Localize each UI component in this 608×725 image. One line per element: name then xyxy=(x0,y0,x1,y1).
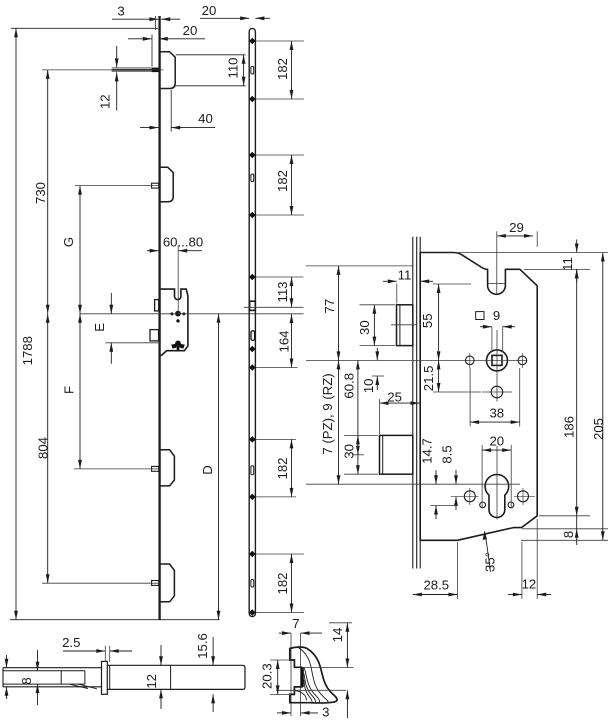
ext lines 9 xyxy=(491,327,493,352)
cylinder centerline horizontal xyxy=(306,483,520,485)
svg-text:20.3: 20.3 xyxy=(260,663,275,689)
svg-text:38: 38 xyxy=(489,406,504,421)
profile crossing line lower xyxy=(276,689,346,691)
svg-text:7 (PZ), 9 (RZ): 7 (PZ), 9 (RZ) xyxy=(320,373,335,454)
profile crossing line upper xyxy=(302,667,354,669)
dim 205 xyxy=(602,253,604,541)
dim 7 (PZ), 9 (RZ) xyxy=(338,360,340,484)
ext line notch center left xyxy=(433,283,471,285)
svg-text:7: 7 xyxy=(292,616,299,631)
cylinder side hole right (big) xyxy=(518,491,529,502)
dim 110 (housing face) xyxy=(176,54,246,56)
dim 25 (deadbolt) xyxy=(380,402,420,404)
svg-text:11: 11 xyxy=(398,268,412,283)
bottom ext line right xyxy=(521,539,608,541)
faceplate flange (section) xyxy=(102,661,108,694)
pin 1 centerline xyxy=(42,69,164,71)
mushroom pin 1 head (extended, filled) xyxy=(152,68,159,73)
latch centerline xyxy=(391,324,417,326)
svg-text:1788: 1788 xyxy=(20,336,35,365)
ext line 40 xyxy=(170,90,172,132)
ext line deadbolt face xyxy=(379,399,381,434)
dim E xyxy=(110,293,112,314)
svg-text:182: 182 xyxy=(275,572,290,594)
ext line pin head xyxy=(151,35,153,67)
dim 14 xyxy=(329,622,352,624)
deadbolt (case) xyxy=(380,435,413,474)
face strip front view xyxy=(249,28,255,616)
pin 3 (retracted) xyxy=(152,466,159,471)
tick 14.7 xyxy=(430,505,457,507)
dim 38 xyxy=(469,368,471,427)
svg-text:F: F xyxy=(61,386,76,394)
cylinder side hole left (small) xyxy=(480,502,486,508)
gearbox follower hub (filled) xyxy=(175,311,181,317)
svg-text:11: 11 xyxy=(560,257,575,271)
gearbox rear box upper (left of faceplate) xyxy=(155,300,159,311)
dim 182 no.2 xyxy=(291,155,293,215)
dim 730 xyxy=(47,70,49,314)
svg-text:20: 20 xyxy=(202,3,217,18)
hub side dot right xyxy=(182,312,185,315)
dim 186 xyxy=(576,269,578,515)
svg-text:21.5: 21.5 xyxy=(421,366,436,392)
dim 10 xyxy=(376,348,378,360)
strip cross-section (filled) xyxy=(301,667,304,687)
svg-text:205: 205 xyxy=(591,418,606,440)
svg-text:3: 3 xyxy=(322,705,329,720)
pin 4 centerline xyxy=(42,582,160,584)
lock body box xyxy=(107,664,242,666)
follower horizontal centerline xyxy=(80,313,304,315)
svg-text:12: 12 xyxy=(144,674,159,689)
dim 12 (pin 1) xyxy=(116,46,118,67)
cylinder side hole left (big) xyxy=(464,491,475,502)
bolt tail block xyxy=(60,671,62,684)
strip oblong hole 3 xyxy=(251,466,254,475)
svg-text:29: 29 xyxy=(509,220,524,235)
dim 7 (profile) xyxy=(279,632,291,634)
svg-text:9: 9 xyxy=(493,308,500,323)
cylinder centerline vertical xyxy=(496,446,498,520)
bolt shaft lines xyxy=(3,670,85,672)
svg-text:182: 182 xyxy=(275,457,290,479)
svg-text:110: 110 xyxy=(225,57,240,78)
bolt outer body lines xyxy=(3,667,102,669)
svg-text:15.6: 15.6 xyxy=(195,633,210,659)
dim 182 no.4 xyxy=(291,554,293,613)
strip cylinder oblong cutout xyxy=(251,331,255,341)
lock case faceplate lines xyxy=(412,237,414,569)
hub lower dot xyxy=(176,319,179,322)
dim 11 (latch protrusion) xyxy=(383,280,397,282)
dim 113 xyxy=(291,277,293,307)
side hole left (follower level) xyxy=(466,356,475,365)
dim 9 (follower square) xyxy=(480,326,492,328)
dim 55 xyxy=(438,284,440,360)
svg-text:20: 20 xyxy=(489,434,504,449)
strip follower cutout xyxy=(250,301,256,310)
dim 40 xyxy=(140,127,159,129)
mushroom pin 1 shaft (hatched) xyxy=(112,67,152,69)
dim 20 (pin head) xyxy=(128,38,152,40)
svg-text:20: 20 xyxy=(183,23,198,38)
svg-text:186: 186 xyxy=(561,416,576,438)
latch housing 3 xyxy=(161,450,175,486)
svg-text:E: E xyxy=(92,323,107,332)
svg-text:55: 55 xyxy=(420,313,435,328)
gearbox rear box lower (left of faceplate) xyxy=(150,330,159,341)
lower arrow segment (off-view dim) xyxy=(346,690,348,718)
dim 804 xyxy=(47,314,49,583)
dim 8 (bolt shaft) xyxy=(37,650,39,671)
svg-text:G: G xyxy=(61,237,76,247)
svg-text:12: 12 xyxy=(97,94,112,109)
svg-text:113: 113 xyxy=(275,281,290,302)
faceplate top ext line left xyxy=(306,265,413,267)
dim 60...80 (backset) xyxy=(147,250,159,252)
tick 10 xyxy=(372,375,384,377)
dim 14.7 xyxy=(435,470,437,484)
dim 8.5 xyxy=(455,470,457,484)
svg-text:14: 14 xyxy=(330,628,345,643)
drive rod right end (rounded) xyxy=(243,665,246,689)
strip oblong hole 1 xyxy=(251,67,254,75)
strip screw holes (diamonds) xyxy=(249,38,256,45)
dim 12 (body height) xyxy=(160,645,162,665)
pin 4 (retracted) xyxy=(152,581,159,586)
ledge ext line right xyxy=(524,268,590,270)
svg-text:60...80: 60...80 xyxy=(163,234,203,249)
svg-text:12: 12 xyxy=(522,576,537,591)
dim 12 (case bottom) xyxy=(521,542,523,599)
svg-text:28.5: 28.5 xyxy=(423,577,449,592)
hole below follower xyxy=(491,386,503,398)
dim 77 xyxy=(338,266,340,361)
follower centerline vertical xyxy=(496,330,498,402)
ext line latch face xyxy=(396,284,398,304)
follower hub circle xyxy=(487,350,508,371)
latch housing 2 (middle) xyxy=(161,167,174,202)
svg-text:182: 182 xyxy=(275,58,290,80)
latch housing 1 (top) xyxy=(161,52,176,89)
notch centerline vertical xyxy=(496,231,498,294)
dim 164 xyxy=(291,314,293,367)
pin 2 centerline xyxy=(75,185,160,187)
latch housing 4 (bottom) xyxy=(161,564,175,602)
ext line top (y=28.3) xyxy=(11,27,158,29)
svg-text:8: 8 xyxy=(561,531,576,538)
svg-text:10: 10 xyxy=(361,378,376,393)
dim 29 xyxy=(536,231,538,247)
square symbol + 9 (follower square) xyxy=(476,312,484,320)
svg-text:182: 182 xyxy=(275,170,290,192)
dim G xyxy=(79,186,81,314)
svg-text:35°: 35° xyxy=(482,552,497,572)
svg-text:8: 8 xyxy=(19,677,34,684)
follower centerline horizontal xyxy=(306,359,527,361)
dim unlabeled bolt dia xyxy=(6,655,8,668)
dim 182 no.1 xyxy=(291,41,293,99)
dim 20.3 xyxy=(270,659,290,661)
gearbox cylinder (profile cylinder silhouette) xyxy=(175,341,181,347)
svg-text:60.8: 60.8 xyxy=(342,373,357,399)
hub side dot left xyxy=(170,312,173,315)
dim D xyxy=(218,314,220,620)
dim 2.5 xyxy=(63,650,105,652)
strip ext lines xyxy=(256,40,304,42)
strip oblong hole 4 xyxy=(251,580,254,588)
euro profile cylinder hole xyxy=(485,475,509,518)
profile centerline vertical 1 xyxy=(290,633,292,716)
svg-text:2.5: 2.5 xyxy=(62,635,80,650)
dim 11 (right) xyxy=(576,240,578,253)
cylinder horizontal centerline xyxy=(105,342,160,344)
dim 28.5 xyxy=(456,542,458,599)
svg-text:730: 730 xyxy=(33,182,48,204)
profile centerline vertical 2 xyxy=(300,633,302,716)
gearbox case outline xyxy=(161,289,188,355)
ext line hole below follower xyxy=(433,391,481,393)
dim 30 (latch) xyxy=(360,304,396,306)
svg-text:30: 30 xyxy=(357,320,372,335)
strip oblong hole 2 xyxy=(251,174,254,182)
corner ext line right xyxy=(539,515,590,517)
ext lines 2.5 xyxy=(104,646,106,662)
faceplate edge view (thick vertical line) xyxy=(158,16,160,620)
latch bolt (case) xyxy=(397,305,413,346)
cylinder side hole right (small) xyxy=(508,502,514,508)
pin 2 (retracted) xyxy=(152,183,159,188)
dim F xyxy=(79,314,81,469)
svg-text:804: 804 xyxy=(35,437,50,459)
svg-text:D: D xyxy=(200,465,215,475)
lock case outline xyxy=(420,253,537,541)
leader 35 degrees xyxy=(485,531,491,572)
svg-text:14.7: 14.7 xyxy=(419,438,434,464)
strip follower cutout bottom ext xyxy=(244,306,304,308)
ext line 3 xyxy=(154,16,156,30)
dim 20 (cylinder screws) xyxy=(481,445,483,508)
profile inner curves xyxy=(298,647,329,702)
dim 1788 vertical xyxy=(15,28,17,619)
dim 21.5 xyxy=(438,360,440,392)
side hole right (follower level) xyxy=(518,356,527,365)
bolt bevel diagonals xyxy=(69,684,88,688)
ext line backset xyxy=(177,246,179,314)
follower square hole xyxy=(492,355,502,365)
dim 20 (strip width) xyxy=(200,17,249,19)
pin 3 centerline xyxy=(74,468,160,470)
dim 3 (faceplate thickness) xyxy=(112,18,158,20)
dim 8 (case bottom) xyxy=(576,516,578,529)
svg-text:164: 164 xyxy=(276,330,291,352)
case top ext line right xyxy=(456,252,608,254)
dim 15.6 xyxy=(212,637,214,665)
dim 30 (deadbolt) xyxy=(344,434,378,436)
notch cross tick xyxy=(489,283,505,285)
bottom step ext line right xyxy=(522,528,608,530)
svg-text:8.5: 8.5 xyxy=(440,445,455,463)
dim 182 no.3 xyxy=(291,439,293,497)
svg-text:40: 40 xyxy=(198,111,213,126)
dim 60.8 xyxy=(357,360,359,454)
svg-text:30: 30 xyxy=(342,444,357,459)
end-cap profile outline xyxy=(290,647,337,703)
svg-text:77: 77 xyxy=(322,299,337,314)
svg-text:3: 3 xyxy=(117,4,124,19)
dim 3 (profile) xyxy=(277,712,291,714)
ext line bottom (y=619.7) xyxy=(10,619,220,621)
tick 60.8 xyxy=(352,454,364,456)
svg-text:25: 25 xyxy=(387,390,402,405)
